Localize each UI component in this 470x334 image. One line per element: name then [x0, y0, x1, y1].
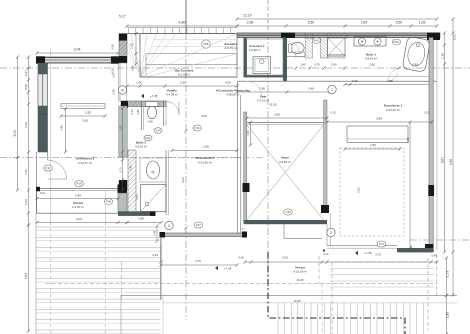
- tag P.02: [144, 135, 152, 141]
- stair winder radiating lines: [131, 34, 141, 76]
- svg-text:1,80: 1,80: [259, 87, 265, 91]
- vacio top wall: [247, 121, 327, 123]
- stairwell outline: [140, 34, 237, 77]
- dorm1 east wall face line: [436, 40, 438, 250]
- property boundary thick dashed: [268, 252, 405, 334]
- svg-text:A:5,02 m²: A:5,02 m²: [135, 145, 147, 149]
- elevator shaft west wall: [244, 38, 247, 78]
- svg-text:0,40: 0,40: [131, 65, 135, 71]
- svg-text:4,94: 4,94: [24, 273, 28, 279]
- svg-text:0,97: 0,97: [112, 72, 116, 78]
- svg-text:2,90: 2,90: [361, 21, 368, 25]
- svg-text:0,70: 0,70: [314, 63, 320, 67]
- svg-text:A:4,38 m²: A:4,38 m²: [166, 93, 178, 97]
- svg-text:A:8,20 m²: A:8,20 m²: [365, 57, 377, 61]
- svg-text:0,13: 0,13: [130, 109, 134, 115]
- left terrace wood deck planks: [35, 213, 37, 334]
- svg-text:0,80: 0,80: [136, 109, 140, 115]
- svg-text:VM.1: VM.1: [393, 40, 400, 44]
- svg-text:1,40: 1,40: [147, 120, 153, 124]
- svg-text:VM.1: VM.1: [313, 39, 320, 43]
- axis bubble B: [118, 86, 126, 94]
- svg-text:0,90: 0,90: [331, 63, 337, 67]
- svg-text:0,58: 0,58: [112, 89, 116, 95]
- toilet baño2: [146, 102, 159, 107]
- right terrace deck lines: [330, 268, 434, 270]
- svg-text:2: 2: [330, 231, 332, 235]
- hall south wall: [121, 101, 166, 107]
- north wall base band: [237, 33, 440, 38]
- svg-text:5,00: 5,00: [225, 81, 231, 85]
- svg-text:12,10: 12,10: [243, 14, 252, 18]
- dimension line 4,80: [127, 25, 237, 27]
- dim 2,70: [161, 264, 237, 266]
- elevator room: [247, 39, 283, 75]
- svg-text:+7,38: +7,38: [364, 251, 372, 255]
- svg-text:4,80: 4,80: [179, 21, 186, 25]
- grid axis vertical x=105.5: [105, 190, 107, 222]
- tag V.04: [154, 128, 162, 134]
- svg-text:1,40: 1,40: [246, 130, 250, 136]
- svg-text:P.08: P.08: [76, 182, 82, 186]
- svg-text:A:5,76 m²: A:5,76 m²: [224, 46, 237, 50]
- dim 1,85: [127, 222, 161, 224]
- svg-text:2,50: 2,50: [180, 81, 186, 85]
- svg-text:2,80: 2,80: [369, 63, 375, 67]
- svg-text:V.09: V.09: [285, 210, 291, 214]
- svg-text:A:23,33 m²: A:23,33 m²: [386, 108, 400, 112]
- svg-text:2,70: 2,70: [195, 259, 201, 263]
- stair eye opening: [146, 54, 237, 65]
- level marker terraza: [215, 266, 218, 270]
- svg-text:0,10: 0,10: [40, 192, 45, 195]
- terrace dim line: [245, 261, 437, 263]
- svg-text:2,50: 2,50: [85, 111, 91, 115]
- tag P.06: [104, 199, 112, 205]
- door tag P.04: [193, 125, 201, 131]
- elevator bottom wall: [244, 75, 288, 77]
- bath2 inner wall vertical: [141, 101, 143, 130]
- north wall black pier 1: [281, 33, 295, 38]
- svg-text:P.13: P.13: [45, 166, 51, 170]
- svg-text:6,10: 6,10: [153, 253, 159, 257]
- north wall black corner: [427, 33, 440, 40]
- tag P.08: [75, 181, 84, 187]
- west wall upper: [38, 63, 48, 152]
- north-west wall 3,04: [45, 58, 111, 63]
- vacio dim 1,40: [250, 122, 252, 145]
- dorm2 east double wall: [237, 81, 239, 233]
- dim 3,04 top-left: [37, 52, 118, 54]
- grid axis horizontal y=237 right: [410, 239, 470, 241]
- svg-text:1,73: 1,73: [446, 271, 450, 277]
- door tag P.13: [44, 165, 53, 171]
- dorm3 right wall dims: [122, 108, 124, 190]
- elevator machine: [253, 57, 271, 74]
- svg-text:8,61: 8,61: [453, 34, 457, 40]
- svg-text:V.04: V.04: [155, 129, 161, 133]
- dorm2 dim 2,02 vertical: [184, 129, 187, 132]
- svg-text:1,80: 1,80: [446, 312, 450, 318]
- left dim 4,94: [28, 225, 30, 331]
- tag VM.1 a: [312, 38, 320, 44]
- svg-text:1,00: 1,00: [136, 81, 142, 85]
- svg-text:0,40: 0,40: [238, 256, 244, 260]
- svg-text:3: 3: [168, 224, 170, 228]
- stair left wall: [119, 34, 127, 63]
- svg-text:1,20: 1,20: [441, 53, 445, 59]
- svg-text:2: 2: [331, 88, 333, 92]
- svg-text:1,50: 1,50: [130, 43, 134, 49]
- svg-text:1,85: 1,85: [138, 217, 144, 221]
- svg-text:3,04: 3,04: [74, 48, 81, 52]
- svg-text:3,04: 3,04: [76, 217, 82, 221]
- svg-text:0,45: 0,45: [431, 254, 437, 258]
- svg-text:0,92: 0,92: [357, 187, 361, 193]
- svg-text:Terraza: Terraza: [295, 266, 305, 270]
- window tag V08: [202, 40, 210, 48]
- dorm1 level marker: [355, 251, 358, 255]
- sala dim line: [237, 91, 330, 93]
- svg-text:Ascensor 1: Ascensor 1: [249, 44, 265, 48]
- svg-text:3,30: 3,30: [274, 113, 280, 117]
- terrace edge double line: [121, 294, 457, 296]
- dorm1 south wall: [397, 248, 433, 252]
- bath2 east wall lower: [165, 150, 167, 215]
- left dim line 6,00: [17, 57, 19, 190]
- bath1 floor line: [238, 80, 437, 82]
- dim 6,10 vertical: [160, 245, 162, 262]
- vacio cross diagonals: [247, 125, 324, 220]
- svg-text:2,60: 2,60: [82, 119, 88, 123]
- wc bidet: [295, 52, 305, 57]
- tag V.09: [284, 209, 293, 215]
- roof projection dashed line: [45, 283, 437, 285]
- svg-text:0,93: 0,93: [135, 194, 139, 200]
- svg-text:V08: V08: [204, 42, 209, 46]
- vacio bottom wall: [244, 220, 327, 224]
- right dim 1,80: [446, 296, 448, 334]
- svg-text:A:7,43 m²: A:7,43 m²: [257, 99, 269, 103]
- svg-text:P.04: P.04: [194, 126, 200, 130]
- dorm2 dim 2,50: [172, 150, 237, 152]
- bath2 dorm3 wall: [119, 106, 127, 157]
- bath2 shower: [141, 185, 167, 212]
- wc toilet: [291, 42, 304, 53]
- dorm1 wardrobe: [347, 126, 408, 143]
- tag VM.1 b: [392, 39, 400, 45]
- stair upper flight treads: [127, 27, 237, 29]
- axis bubble 3: [165, 221, 173, 229]
- svg-text:0,58: 0,58: [111, 44, 115, 50]
- svg-text:5,27: 5,27: [119, 15, 126, 19]
- hall dim line: [127, 85, 237, 87]
- svg-text:A:9,85 m²: A:9,85 m²: [279, 160, 291, 164]
- dimension line 12,10: [237, 18, 437, 20]
- svg-text:2,50: 2,50: [203, 145, 209, 149]
- wc door arc: [287, 41, 299, 53]
- svg-text:2,48: 2,48: [308, 87, 314, 91]
- terrace3 side walls: [36, 190, 38, 213]
- north wall window glazing lines: [237, 34, 440, 36]
- svg-text:0,58: 0,58: [24, 84, 28, 90]
- shower hatch walls: [321, 38, 328, 59]
- axis bubble 2 top: [328, 85, 336, 93]
- svg-text:0,22: 0,22: [424, 111, 430, 115]
- svg-text:10,45: 10,45: [293, 299, 301, 303]
- svg-text:3,86: 3,86: [376, 117, 382, 121]
- svg-text:1,42: 1,42: [24, 169, 28, 175]
- svg-text:2,84: 2,84: [75, 194, 81, 198]
- door tag P.07 right: [377, 241, 386, 247]
- svg-text:0,70: 0,70: [119, 167, 123, 173]
- south step lines: [283, 224, 285, 239]
- svg-text:0,27: 0,27: [409, 244, 413, 250]
- door tag P.07 left: [194, 222, 203, 228]
- grid axis horizontal y=68: [0, 67, 470, 69]
- right dim line x=437: [436, 37, 438, 250]
- svg-text:P.06: P.06: [106, 200, 112, 204]
- vacio dim 3,30: [247, 117, 327, 119]
- axis y68 dim ticks: [294, 66, 297, 69]
- dim 0,48 rotated: [156, 226, 158, 241]
- bath1 vanity: [354, 37, 386, 47]
- north wall hatched pier A: [305, 33, 313, 38]
- svg-text:1,28: 1,28: [419, 21, 426, 25]
- svg-text:A:2,65 m²: A:2,65 m²: [72, 205, 84, 209]
- right dim 9,30: [452, 19, 454, 295]
- dorm1 bed dashed: [340, 148, 404, 236]
- left dim chain 2,29 1,42 0,63: [28, 57, 30, 225]
- svg-text:+7,38: +7,38: [150, 94, 158, 98]
- svg-text:6,50: 6,50: [308, 21, 315, 25]
- roof projection dashed top right: [334, 261, 429, 263]
- bath1 lower dims: [345, 84, 432, 86]
- railing bracket: [240, 228, 245, 230]
- west wall lower thin part: [36, 152, 38, 213]
- dorm3 door arc P.13: [48, 160, 67, 179]
- bath2 sink: [147, 161, 160, 179]
- shower top: [328, 38, 346, 57]
- grid axis vertical x=186: [185, 0, 187, 33]
- svg-text:3,00: 3,00: [201, 114, 207, 118]
- svg-text:P.02: P.02: [145, 136, 151, 140]
- dorm1 east wall: [429, 38, 433, 253]
- vacio west wall: [244, 112, 247, 222]
- bathtub: [402, 36, 430, 72]
- right dim 1,20 8,67: [444, 33, 446, 252]
- terrace3 south wall: [37, 212, 119, 214]
- bath2 east wall upper: [163, 101, 165, 126]
- bath2 hatched wall: [128, 150, 136, 212]
- dorm1 dim 6,30: [409, 122, 411, 248]
- svg-text:0,63: 0,63: [24, 199, 28, 205]
- dorm1 dim 3,86: [327, 121, 432, 123]
- svg-text:P.07: P.07: [196, 223, 202, 227]
- svg-text:A:2,38 m²: A:2,38 m²: [249, 48, 261, 52]
- svg-text:2,98: 2,98: [247, 21, 254, 25]
- svg-text:6,30: 6,30: [406, 137, 410, 143]
- dorm1 door lines: [326, 224, 328, 246]
- dim 3,04 below terrace: [37, 222, 127, 224]
- svg-text:10,45: 10,45: [296, 278, 304, 282]
- svg-text:A:14,26 m²: A:14,26 m²: [198, 160, 212, 164]
- svg-text:3,75: 3,75: [375, 253, 381, 257]
- north wall hatched pier B: [327, 33, 347, 38]
- bath2 sink counter: [140, 158, 166, 182]
- svg-text:0,48: 0,48: [153, 230, 157, 236]
- vacio east wall: [324, 100, 327, 212]
- svg-text:9,30: 9,30: [449, 159, 453, 165]
- grid axis vertical x=50.5: [50, 48, 52, 222]
- svg-text:6,00: 6,00: [13, 130, 17, 137]
- west wall window: [38, 74, 48, 106]
- dorm1 south window: [327, 245, 397, 247]
- svg-text:P.07: P.07: [379, 242, 385, 246]
- west house edge below: [160, 237, 162, 300]
- svg-text:1,98: 1,98: [387, 79, 393, 83]
- svg-text:3,02: 3,02: [282, 256, 288, 260]
- stair lower treads: [153, 39, 237, 41]
- svg-text:A:19,26 m²: A:19,26 m²: [293, 270, 306, 274]
- bath2 west wall: [119, 63, 127, 101]
- level marker +7,38 hall: [141, 94, 144, 98]
- axis bubble 2 bottom: [327, 228, 335, 236]
- svg-text:2,40: 2,40: [40, 112, 46, 116]
- svg-text:1,23: 1,23: [119, 125, 123, 131]
- terrace3 window wall: [37, 187, 118, 189]
- svg-text:2,02: 2,02: [181, 177, 185, 183]
- grid axis horizontal y=157.5: [0, 157, 247, 159]
- svg-text:0,50: 0,50: [396, 21, 403, 25]
- roof projection dashed verticals: [121, 262, 123, 300]
- svg-text:0,90: 0,90: [412, 63, 418, 67]
- stair flight diagonals: [146, 54, 237, 77]
- svg-text:0,10: 0,10: [324, 253, 329, 256]
- svg-text:2,50: 2,50: [370, 143, 376, 147]
- svg-text:A:10,57 m²: A:10,57 m²: [78, 161, 92, 165]
- svg-text:1,40: 1,40: [300, 63, 306, 67]
- svg-text:0,30: 0,30: [352, 79, 358, 83]
- stair bottom edge: [140, 76, 237, 78]
- svg-text:Terraza: Terraza: [73, 201, 83, 205]
- south railing wall: [161, 233, 245, 237]
- dimension chain 2,98 / 6,50 / 2,90 / 0,50 / 1,28: [237, 25, 437, 27]
- hall door arc P.04: [166, 102, 179, 115]
- grid axis vertical x=268: [267, 0, 269, 33]
- svg-text:2,90: 2,90: [60, 125, 64, 131]
- svg-text:11,50: 11,50: [269, 103, 277, 107]
- south terrace wood deck planks: [277, 303, 279, 334]
- right dim 1,73: [446, 258, 448, 296]
- svg-text:0,97: 0,97: [24, 70, 28, 76]
- svg-text:0,10: 0,10: [330, 111, 336, 115]
- sala door arc: [247, 81, 262, 96]
- bath1 door arcs: [388, 68, 401, 81]
- terrace3 dims: [37, 198, 118, 200]
- wc room walls: [287, 56, 305, 58]
- dorm3 dims: [61, 115, 105, 117]
- svg-text:+7,38: +7,38: [224, 267, 232, 271]
- svg-text:1,46: 1,46: [129, 165, 133, 171]
- svg-text:A:1,69m²: A:1,69m²: [178, 72, 190, 76]
- elevator shaft east wall: [283, 38, 287, 82]
- svg-text:8,67: 8,67: [441, 157, 445, 163]
- dorm3 closet: [61, 104, 105, 109]
- svg-text:2,29: 2,29: [24, 122, 28, 128]
